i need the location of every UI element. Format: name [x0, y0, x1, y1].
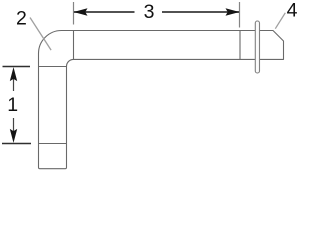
svg-text:3: 3: [144, 1, 155, 23]
dimension 1 bottom tick: [2, 143, 31, 145]
dimension 3 arrowhead right: [226, 8, 240, 15]
joint line at elbow (horizontal, across vertical tube): [39, 66, 67, 68]
svg-text:4: 4: [287, 0, 298, 21]
dimension 3 extension line left: [73, 2, 75, 25]
dimension 1 arrowhead up: [10, 67, 17, 81]
dimension 1 arrowhead down: [10, 129, 17, 143]
svg-text:1: 1: [7, 94, 18, 116]
svg-text:2: 2: [16, 7, 27, 29]
dimension 3 arrowhead left: [74, 8, 88, 15]
joint line at elbow (vertical, across horizontal tube): [73, 31, 75, 60]
leader line from 4 to end cap: [275, 13, 285, 29]
joint line near bottom of vertical tube: [39, 143, 67, 145]
joint line near right end: [239, 31, 241, 60]
dimension 1 line: [13, 71, 15, 138]
dimension 3 line: [74, 11, 239, 13]
dimension 3 extension line right: [239, 2, 241, 28]
dimension 1 top tick: [3, 66, 31, 68]
bent tube body (part outline): [39, 31, 284, 169]
flange disc (thin plate at right end): [255, 21, 259, 73]
leader line from 2 to elbow: [30, 18, 51, 51]
